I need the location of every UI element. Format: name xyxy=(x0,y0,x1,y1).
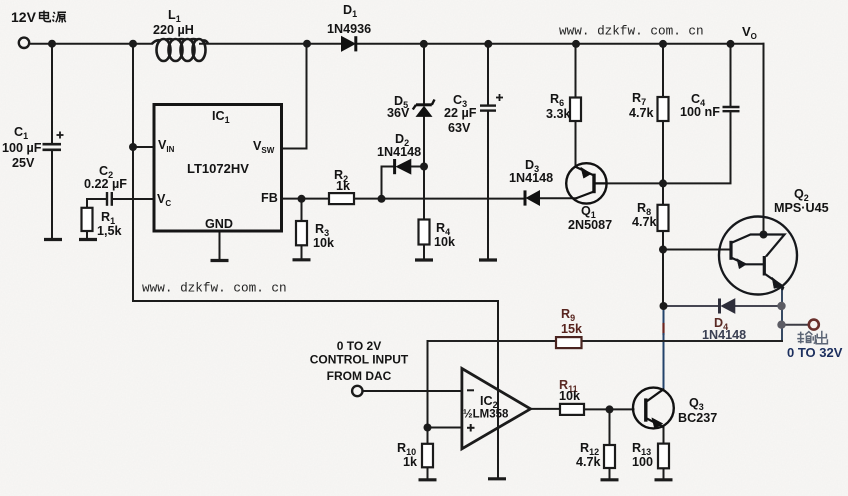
wire R9 feedback row xyxy=(428,340,783,342)
label R13 value xyxy=(632,455,653,469)
zener D5 36V xyxy=(413,100,435,117)
label R3 value xyxy=(313,236,335,250)
wire D4 row xyxy=(664,305,782,307)
pin GND xyxy=(205,217,233,231)
DAC input terminal xyxy=(352,386,362,396)
wire R8 node down to D4 node xyxy=(662,250,664,307)
input terminal 12V xyxy=(19,38,29,48)
pin Vsw xyxy=(253,139,275,155)
label Chinese dianyuan (power source) xyxy=(40,11,66,23)
label R9 xyxy=(561,307,575,323)
wire Q2 base row xyxy=(663,249,731,251)
label control input line1 xyxy=(337,339,381,353)
resistor R1 body xyxy=(82,208,93,231)
wire R10 stubs xyxy=(427,428,429,479)
label Q2 xyxy=(794,187,809,203)
svg-text:MPS·U45: MPS·U45 xyxy=(774,201,829,215)
label R13 xyxy=(632,441,651,457)
wire output stub xyxy=(782,324,809,326)
svg-text:www. dzkfw. com. cn: www. dzkfw. com. cn xyxy=(142,281,287,296)
resistor R4 body xyxy=(419,220,430,245)
label R7 value xyxy=(629,106,655,120)
label Q2 part xyxy=(774,201,829,215)
label D1 value xyxy=(327,22,371,36)
svg-text:1N4148: 1N4148 xyxy=(509,171,553,185)
label R3 xyxy=(315,222,329,238)
pin Vin xyxy=(158,138,175,154)
svg-text:1N4148: 1N4148 xyxy=(377,145,421,159)
svg-text:1k: 1k xyxy=(403,455,418,469)
capacitor C2 plates xyxy=(107,192,112,206)
label D1 xyxy=(343,3,357,19)
junction D5 rail tap xyxy=(420,40,428,48)
label C3 xyxy=(453,93,467,109)
ground R4 xyxy=(415,258,433,261)
ground R1 xyxy=(79,238,97,241)
wire top supply rail from input to Vo corner xyxy=(30,43,764,45)
label R8 value xyxy=(632,215,658,229)
resistor R6 body xyxy=(570,98,581,122)
junction D4 left node xyxy=(660,302,668,310)
wire 12V drop to opamp supply run xyxy=(133,44,498,478)
label R10 value xyxy=(403,455,418,469)
diode D4 1N4148 xyxy=(720,299,735,314)
label D2 xyxy=(395,132,409,148)
wire D2 stub from R2 node xyxy=(382,167,425,199)
label D3 value xyxy=(509,171,553,185)
label C1 voltage xyxy=(12,156,35,170)
resistor R3 body xyxy=(296,221,307,245)
svg-text:1N4936: 1N4936 xyxy=(327,22,371,36)
svg-text:12V: 12V xyxy=(11,9,37,25)
label D3 xyxy=(525,158,539,174)
wire R6 branch xyxy=(575,44,577,167)
svg-text:15k: 15k xyxy=(561,322,583,336)
junction opamp plus input node xyxy=(424,424,432,432)
svg-text:10k: 10k xyxy=(559,389,581,403)
svg-text:2N5087: 2N5087 xyxy=(568,218,612,232)
wire R11 to Q3 base xyxy=(584,408,634,410)
diode D1 1N4936 xyxy=(342,36,356,51)
svg-text:220 µH: 220 µH xyxy=(153,23,194,37)
resistor R11 body xyxy=(560,404,584,415)
wire R8 stubs xyxy=(662,183,664,249)
svg-text:4.7k: 4.7k xyxy=(576,455,602,469)
label D2 value xyxy=(377,145,421,159)
label C2 xyxy=(99,164,113,180)
label R12 xyxy=(580,441,599,457)
label D4 value xyxy=(702,328,746,342)
label IC1 xyxy=(212,109,230,125)
ground R12 xyxy=(601,478,619,481)
junction C1 tap on rail xyxy=(48,40,56,48)
wire Vo drop to Q2 collector xyxy=(763,44,765,235)
ground IC1 GND xyxy=(211,259,229,262)
svg-text:100 µF: 100 µF xyxy=(2,141,42,155)
resistor R2 body xyxy=(329,193,354,204)
wire D5 R4 vertical xyxy=(423,44,425,259)
wire Q1 base row to C4 xyxy=(596,44,731,184)
svg-text:0.22 µF: 0.22 µF xyxy=(84,177,127,191)
svg-text:FB: FB xyxy=(261,191,278,205)
label C3 value xyxy=(444,106,477,120)
svg-text:100: 100 xyxy=(632,455,653,469)
label 12V power xyxy=(11,9,37,25)
label R10 xyxy=(397,441,416,457)
label R11 value xyxy=(559,389,581,403)
ground C1 xyxy=(44,238,62,241)
svg-text:½LM358: ½LM358 xyxy=(463,409,509,421)
wire current limit drop D4 node to Q3 collector xyxy=(663,306,665,389)
capacitor C3 plates xyxy=(480,106,496,111)
label R9 value xyxy=(561,322,583,336)
op-amp supply line through triangle xyxy=(497,390,499,478)
watermark left xyxy=(142,281,287,296)
wire opamp plus node vertical xyxy=(427,341,429,428)
label IC2 part xyxy=(463,409,509,421)
wire R1 stubs xyxy=(86,199,88,239)
svg-text:0 TO 2V: 0 TO 2V xyxy=(337,339,381,353)
junction dot D4 right grey xyxy=(777,302,785,310)
resistor R12 body xyxy=(604,445,615,468)
svg-text:BC237: BC237 xyxy=(678,411,717,425)
junction R11 R12 Q3 base node xyxy=(606,405,614,413)
wire Q2 emitter drop and R9 corner xyxy=(781,288,783,342)
label Q3 part xyxy=(678,411,717,425)
svg-text:CONTROL INPUT: CONTROL INPUT xyxy=(310,353,409,367)
IC1 box LT1072HV xyxy=(154,105,282,232)
junction dot output grey xyxy=(777,321,785,329)
transistor Q2 MPS-U45 darlington xyxy=(719,217,797,295)
svg-text:LT1072HV: LT1072HV xyxy=(187,161,249,176)
label D5 xyxy=(394,94,408,110)
diode D3 1N4148 xyxy=(525,190,540,205)
resistor R13 body xyxy=(658,444,669,469)
label Chinese shuchu (output) xyxy=(797,331,827,344)
svg-text:22 µF: 22 µF xyxy=(444,106,477,120)
label R12 value xyxy=(576,455,602,469)
label R2 value xyxy=(336,179,351,193)
resistor R8 body xyxy=(658,205,669,231)
label R7 xyxy=(632,91,646,107)
wire DAC input to minus pin xyxy=(363,390,462,392)
pin FB xyxy=(261,191,278,205)
ground C3 xyxy=(479,258,497,261)
label control input line2 xyxy=(310,353,409,367)
transistor Q3 BC237 xyxy=(633,388,674,429)
junction R7 rail tap xyxy=(659,40,667,48)
junction C3 rail tap xyxy=(484,40,492,48)
junction R2 D2 node xyxy=(378,195,386,203)
transistor Q1 2N5087 xyxy=(566,163,606,203)
svg-text:25V: 25V xyxy=(12,156,35,170)
label C1 xyxy=(14,125,28,141)
op-amp minus pin mark xyxy=(467,389,474,391)
wire R7 branch xyxy=(662,44,664,184)
capacitor C1 plus sign xyxy=(57,132,64,139)
label Q1 part xyxy=(568,218,612,232)
label R6 xyxy=(550,92,564,108)
label IC2 xyxy=(480,394,498,410)
wire IC1 GND pin xyxy=(219,232,221,260)
wire plus input stub xyxy=(428,427,462,429)
svg-text:10k: 10k xyxy=(313,236,335,250)
label R1 xyxy=(101,210,115,226)
op-amp plus pin mark xyxy=(467,424,475,432)
op-amp U IC2 triangle xyxy=(462,369,531,449)
label L1 value xyxy=(153,23,194,37)
label R4 xyxy=(436,221,450,237)
svg-text:0 TO 32V: 0 TO 32V xyxy=(787,345,843,360)
capacitor C3 plus sign xyxy=(496,94,503,101)
wire R3 stubs xyxy=(301,199,303,259)
svg-text:1k: 1k xyxy=(336,179,351,193)
ground R13 xyxy=(655,478,673,481)
label control input line3 xyxy=(327,369,392,383)
wire Vc pin with C2 gap xyxy=(87,198,153,200)
resistor R7 body xyxy=(658,97,669,121)
junction Vin tap xyxy=(129,143,137,151)
wire FB row to D3 and Q1 xyxy=(282,197,577,199)
wire R12 stubs xyxy=(609,409,611,478)
svg-text:www. dzkfw. com. cn: www. dzkfw. com. cn xyxy=(559,24,704,39)
label Vo xyxy=(742,24,757,41)
wire Vsw riser xyxy=(282,44,307,149)
junction Q2 collector node xyxy=(760,231,768,239)
label L1 xyxy=(168,8,181,24)
svg-text:GND: GND xyxy=(205,217,233,231)
svg-text:100 nF: 100 nF xyxy=(680,105,720,119)
junction R7 R8 Q1 base node xyxy=(659,179,667,187)
svg-text:10k: 10k xyxy=(434,235,456,249)
output terminal xyxy=(809,320,819,330)
label IC1 part LT1072HV xyxy=(187,161,249,176)
junction D2 D5 anode node xyxy=(420,163,428,171)
label R11 xyxy=(559,378,578,394)
wire C1 drop xyxy=(51,44,53,239)
label C3 voltage xyxy=(448,121,471,135)
label R8 xyxy=(637,201,651,217)
node FB junction xyxy=(298,195,306,203)
label C1 value xyxy=(2,141,42,155)
junction C4 rail tap node Vo xyxy=(727,40,735,48)
resistor R9 body xyxy=(556,337,582,348)
label output range xyxy=(787,345,843,360)
label R6 value xyxy=(546,107,572,121)
label C2 value xyxy=(84,177,127,191)
junction R6 rail tap xyxy=(572,40,580,48)
label Q3 xyxy=(689,396,704,412)
junction Vsw riser xyxy=(303,40,311,48)
junction 12V drop tap xyxy=(129,40,137,48)
ground R3 xyxy=(293,258,311,261)
svg-text:FROM DAC: FROM DAC xyxy=(327,369,392,383)
label C4 value xyxy=(680,105,720,119)
svg-text:1N4148: 1N4148 xyxy=(702,328,746,342)
label Q1 xyxy=(581,204,596,220)
diode D2 1N4148 xyxy=(395,159,411,174)
ground R10 xyxy=(419,478,437,481)
capacitor C4 plates xyxy=(723,107,740,111)
svg-text:4.7k: 4.7k xyxy=(632,215,658,229)
pin Vc xyxy=(157,192,171,208)
resistor R10 body xyxy=(422,444,433,468)
svg-text:63V: 63V xyxy=(448,121,471,135)
label D4 xyxy=(714,316,728,332)
svg-text:1,5k: 1,5k xyxy=(97,224,123,238)
label C4 xyxy=(691,92,705,108)
label D5 value xyxy=(387,106,410,120)
wire C3 vertical xyxy=(487,44,489,259)
watermark top right xyxy=(559,24,704,39)
label R1 value xyxy=(97,224,123,238)
junction R8 Q2 base node xyxy=(659,246,667,254)
label R4 value xyxy=(434,235,456,249)
capacitor C1 plates xyxy=(43,144,62,150)
inductor L1 coil xyxy=(152,39,208,61)
wire opamp output to R11 xyxy=(531,408,561,410)
svg-text:4.7k: 4.7k xyxy=(629,106,655,120)
ground op-amp xyxy=(488,477,506,480)
svg-text:36V: 36V xyxy=(387,106,410,120)
svg-text:3.3k: 3.3k xyxy=(546,107,572,121)
wire Q3 emitter to R13 xyxy=(663,428,665,479)
label R2 xyxy=(334,168,348,184)
